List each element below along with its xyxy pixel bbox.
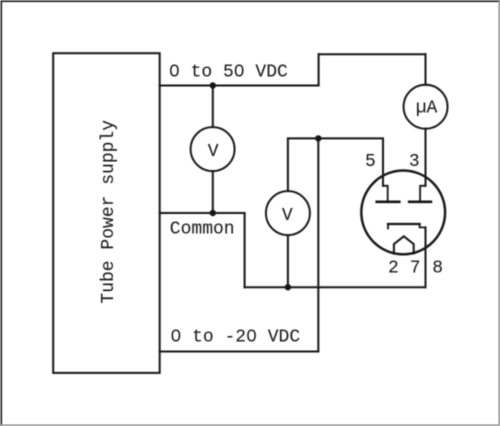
- tube left plate bar: [377, 201, 400, 204]
- svg-text:7: 7: [410, 259, 421, 279]
- wire: Common net, box to corner: [160, 212, 245, 214]
- svg-text:0 to -20 VDC: 0 to -20 VDC: [171, 328, 301, 348]
- power supply box PS1: [53, 53, 160, 373]
- wire: riser up from 0-50 wire: [318, 54, 320, 85]
- wire: node run between voltmeter M2 and tube pin 5: [288, 137, 383, 139]
- voltmeter M2 body: [266, 191, 310, 235]
- wire: voltmeter M1 top lead: [212, 86, 214, 128]
- wire: riser from -20 VDC wire up to node: [317, 138, 319, 351]
- tube right plate bar: [409, 201, 431, 204]
- svg-text:Tube Power supply: Tube Power supply: [99, 120, 119, 304]
- wire: tube pin 5 lead: [382, 138, 384, 185]
- wire: 0 to -20 VDC net, box to riser: [160, 351, 319, 353]
- tube target electrode bar (pin 8): [388, 223, 420, 225]
- zero glyph counter mask 1: [173, 68, 176, 73]
- node: junction dot -20 VDC / M2 / pin5: [315, 135, 321, 141]
- svg-text:8: 8: [432, 259, 443, 279]
- svg-text:Common: Common: [170, 220, 235, 240]
- wire: voltmeter M1 bottom lead: [212, 171, 214, 213]
- svg-text:5: 5: [365, 152, 376, 172]
- svg-text:3: 3: [409, 152, 420, 172]
- svg-text:µA: µA: [416, 98, 438, 118]
- wire: drop to microammeter top: [425, 54, 427, 85]
- wire: 0 to 50 VDC net, box to riser: [160, 85, 319, 87]
- tube target electrode left tick: [387, 224, 389, 229]
- svg-text:V: V: [208, 142, 219, 162]
- zero glyph counter mask 3: [174, 333, 177, 338]
- microammeter M3 body: [404, 85, 448, 129]
- node: junction dot lower run / M2: [285, 284, 291, 290]
- wire: pin 8 lead rising into tube: [425, 227, 427, 287]
- node: junction dot 0-50 VDC / M1: [210, 82, 216, 88]
- svg-text:2: 2: [388, 259, 399, 279]
- node: junction dot Common / M1: [210, 210, 216, 216]
- wire: microammeter to tube pin 3: [425, 129, 427, 186]
- wire: voltmeter M2 bottom lead: [287, 235, 289, 287]
- vacuum tube V1 envelope: [361, 171, 445, 255]
- wire: voltmeter M2 top lead: [287, 138, 289, 191]
- voltmeter M1 body: [191, 127, 235, 171]
- tube target electrode jog to pin 8 lead: [420, 224, 426, 227]
- wire: Common corner drop: [244, 213, 246, 287]
- svg-text:0 to 50 VDC: 0 to 50 VDC: [169, 63, 288, 83]
- zero glyph counter mask 2: [238, 68, 241, 73]
- zero glyph counter mask 4: [250, 333, 253, 338]
- wire: elevated run to microammeter: [319, 53, 426, 55]
- tube filament (pins 2,7): [394, 236, 414, 253]
- wire: lower horizontal run to tube pin 8: [245, 286, 426, 288]
- tube right anode (pin 3) jog and plate: [420, 186, 425, 202]
- svg-text:V: V: [282, 206, 293, 226]
- tube left anode (pin 5) jog and plate: [383, 186, 388, 202]
